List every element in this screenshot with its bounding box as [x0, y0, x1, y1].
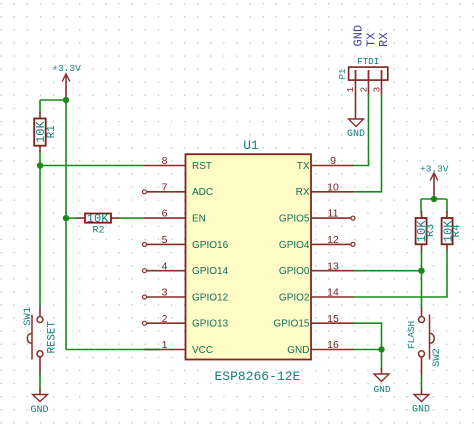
svg-text:GPIO12: GPIO12	[192, 292, 229, 303]
svg-text:3: 3	[372, 87, 382, 92]
svg-text:6: 6	[162, 208, 168, 220]
svg-text:SW1: SW1	[22, 307, 34, 326]
svg-text:1: 1	[346, 87, 356, 92]
svg-text:10K: 10K	[441, 220, 455, 242]
svg-text:GND: GND	[347, 129, 365, 140]
svg-text:FTDI: FTDI	[357, 56, 379, 67]
svg-text:FLASH: FLASH	[406, 321, 417, 349]
svg-text:GPIO16: GPIO16	[192, 240, 229, 251]
svg-text:11: 11	[328, 208, 339, 220]
svg-text:4: 4	[162, 260, 168, 272]
svg-text:8: 8	[162, 155, 168, 167]
svg-text:SW2: SW2	[431, 348, 443, 367]
svg-text:GND: GND	[287, 345, 309, 356]
svg-text:RST: RST	[192, 161, 212, 172]
svg-text:GPIO4: GPIO4	[279, 240, 310, 251]
svg-text:+3.3V: +3.3V	[52, 63, 81, 74]
svg-text:RX: RX	[377, 33, 391, 47]
svg-text:5: 5	[162, 234, 168, 246]
svg-text:3: 3	[162, 287, 168, 299]
svg-text:P1: P1	[338, 69, 348, 80]
svg-text:16: 16	[327, 339, 339, 351]
svg-text:TX: TX	[297, 161, 310, 172]
svg-text:1: 1	[162, 339, 168, 351]
svg-text:RX: RX	[296, 187, 310, 198]
svg-text:14: 14	[327, 287, 339, 299]
svg-text:GND: GND	[373, 384, 390, 395]
svg-text:RESET: RESET	[46, 321, 58, 354]
svg-text:7: 7	[162, 181, 168, 193]
svg-text:GPIO0: GPIO0	[279, 266, 310, 277]
svg-text:GPIO14: GPIO14	[192, 266, 229, 277]
svg-text:2: 2	[359, 87, 369, 92]
svg-text:2: 2	[162, 313, 168, 325]
svg-text:10: 10	[327, 181, 339, 193]
svg-text:10K: 10K	[34, 121, 48, 143]
svg-text:GPIO2: GPIO2	[279, 292, 310, 303]
svg-text:U1: U1	[243, 138, 259, 153]
svg-text:EN: EN	[192, 214, 206, 225]
svg-text:13: 13	[327, 260, 339, 272]
svg-text:GPIO13: GPIO13	[192, 319, 229, 330]
svg-text:10K: 10K	[87, 212, 109, 226]
svg-text:R2: R2	[93, 226, 105, 237]
svg-text:GND: GND	[351, 25, 365, 47]
svg-text:GPIO15: GPIO15	[273, 319, 310, 330]
svg-text:GND: GND	[412, 404, 430, 415]
svg-text:VCC: VCC	[192, 345, 213, 356]
svg-text:12: 12	[327, 234, 339, 246]
svg-text:GND: GND	[30, 405, 48, 416]
svg-text:+3.3V: +3.3V	[420, 163, 449, 174]
svg-text:ADC: ADC	[192, 187, 213, 198]
svg-text:15: 15	[327, 313, 339, 325]
svg-text:GPIO5: GPIO5	[279, 214, 310, 225]
svg-text:ESP8266-12E: ESP8266-12E	[215, 369, 301, 384]
svg-text:9: 9	[330, 155, 336, 167]
svg-text:10K: 10K	[415, 220, 429, 242]
